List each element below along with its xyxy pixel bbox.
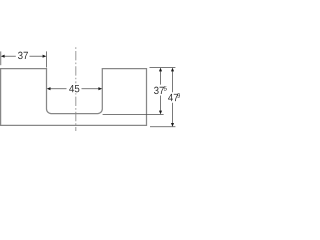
arrow down of dim 47.9: [171, 123, 174, 127]
extension line middle right (cut-out bottom): [103, 114, 164, 116]
dimension line 37: [4, 55, 16, 57]
extension line left of dim 37: [0, 51, 2, 65]
arrow right of dim 45: [98, 87, 102, 90]
dimension line 47.9 vertical: [172, 71, 174, 93]
label 45: [69, 85, 79, 92]
arrow down of dim 37.5: [159, 111, 162, 115]
extension line bottom right (counter bottom edge): [150, 126, 175, 128]
dimension line 45 (cut-out width): [50, 88, 67, 90]
extension line right of dim 37: [46, 51, 48, 67]
centerline (vertical dash-dot axis of cut-out): [75, 47, 77, 131]
arrow up of dim 37.5: [159, 68, 162, 72]
label 37: [18, 52, 28, 59]
label 37.5: [154, 87, 164, 94]
arrow up of dim 47.9: [171, 68, 174, 72]
dimension line 37.5 vertical: [160, 71, 162, 85]
arrow right of dim 37: [43, 55, 47, 58]
label 47.9: [168, 94, 178, 101]
arrow left of dim 45: [47, 87, 51, 90]
white backing for label 45: [68, 83, 81, 93]
arrow left of dim 37: [1, 55, 5, 58]
extension line top right (counter top edge): [150, 67, 176, 69]
countertop outline with U-shaped cut-out: [1, 69, 147, 126]
